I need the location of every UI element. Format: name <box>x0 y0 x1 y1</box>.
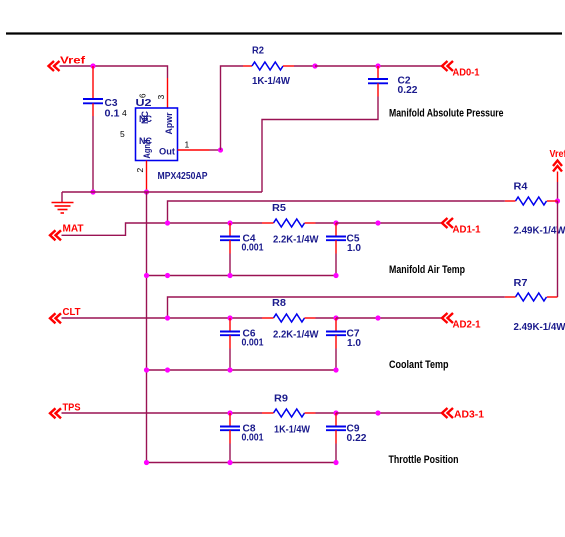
port AD1-1 <box>442 218 453 228</box>
svg-text:R8: R8 <box>272 298 286 309</box>
port TPS <box>50 408 61 418</box>
ground <box>52 203 74 214</box>
wire R8 right lead to C7 node <box>305 317 337 319</box>
wire MAT ground bus <box>147 275 337 277</box>
svg-text:3: 3 <box>156 95 166 100</box>
junction C7 / CLT bus <box>333 367 338 372</box>
junction C5 / MAT bus <box>333 273 338 278</box>
junction CLT output artifact <box>375 315 380 320</box>
svg-text:R5: R5 <box>272 203 286 214</box>
svg-text:CLT: CLT <box>63 306 82 318</box>
resistor R9 <box>274 409 305 417</box>
junction trunk / TPS bus corner <box>144 460 149 465</box>
resistor R7 <box>516 293 547 301</box>
wire C4 lower lead to MAT ground bus <box>229 240 231 275</box>
svg-text:R9: R9 <box>274 394 288 405</box>
svg-text:1K-1/4W: 1K-1/4W <box>252 76 291 87</box>
junction Vref pull-up / CLT line <box>165 315 170 320</box>
wire R4 rail to MAT line <box>168 201 516 223</box>
wire C6 lower lead to CLT ground bus <box>229 335 231 370</box>
svg-text:Throttle Position: Throttle Position <box>389 454 459 466</box>
wire C4 upper lead <box>229 223 231 237</box>
wire C7 upper lead <box>335 318 337 332</box>
wire U2 pin 1 Out lead <box>178 149 221 151</box>
wire C8 lower lead to TPS ground bus <box>229 430 231 462</box>
wire R5 right lead to C5 node <box>305 222 337 224</box>
svg-text:Manifold Absolute Pressure: Manifold Absolute Pressure <box>389 108 504 120</box>
junction C7 tap <box>333 315 338 320</box>
svg-text:6: 6 <box>139 93 148 98</box>
wire U2 pin 2 lead <box>146 161 148 191</box>
wire CLT ground bus <box>147 369 337 371</box>
wire R9 left lead <box>262 412 274 414</box>
port AD3-1 <box>442 408 453 418</box>
svg-text:AD1-1: AD1-1 <box>453 225 481 236</box>
capacitor C3 <box>83 99 103 103</box>
svg-text:2: 2 <box>135 168 145 173</box>
svg-text:Manifold Air Temp: Manifold Air Temp <box>389 264 465 276</box>
resistor R8 <box>274 314 305 322</box>
svg-text:0.22: 0.22 <box>398 85 418 96</box>
svg-text:0.001: 0.001 <box>242 433 264 444</box>
svg-text:AD3-1: AD3-1 <box>454 410 484 421</box>
svg-text:0.001: 0.001 <box>242 243 264 254</box>
svg-text:1: 1 <box>185 140 190 150</box>
wire MAT output line <box>336 222 442 224</box>
svg-text:1.0: 1.0 <box>347 243 361 254</box>
port MAT <box>50 230 61 240</box>
port AD2-1 <box>442 313 453 323</box>
capacitor C9 <box>326 427 346 431</box>
U2 pin 4 name NC <box>139 111 152 124</box>
junction Vref pull-up / MAT line <box>165 220 170 225</box>
junction R4/Vref node <box>555 198 560 203</box>
junction C6 tap <box>227 315 232 320</box>
wire R4 right lead <box>547 200 558 202</box>
svg-text:NC: NC <box>140 111 150 124</box>
wire TPS output line <box>336 412 442 414</box>
wire R8 left lead <box>262 317 274 319</box>
svg-text:Vref: Vref <box>550 149 565 160</box>
wire Out node to R2 <box>221 66 253 150</box>
svg-text:AD2-1: AD2-1 <box>453 320 481 331</box>
capacitor C2 <box>368 79 388 83</box>
U2 pin 5 name NC / pin 2 name Agnd <box>139 136 152 159</box>
junction C4 tap <box>227 220 232 225</box>
wire ground rail <box>62 191 262 193</box>
svg-text:R2: R2 <box>252 46 264 57</box>
junction TPS output artifact <box>375 410 380 415</box>
junction C3/ground rail <box>90 189 95 194</box>
junction trunk / CLT bus <box>144 367 149 372</box>
wire C2 upper lead <box>377 66 379 79</box>
wire ground trunk vertical <box>146 192 148 463</box>
wire R7 rail to CLT line <box>168 297 516 318</box>
svg-text:Agnd: Agnd <box>142 140 152 159</box>
junction C9 / TPS bus <box>333 460 338 465</box>
junction C5 tap <box>333 220 338 225</box>
junction trunk / MAT bus <box>144 273 149 278</box>
capacitor C4 <box>220 237 240 241</box>
svg-text:MAT: MAT <box>63 223 85 235</box>
wire CLT port to R8 <box>62 317 263 319</box>
junction CLT bus artifact <box>165 367 170 372</box>
wire R7 right lead <box>547 296 558 298</box>
wire C2 lower lead return to ground rail <box>262 83 378 192</box>
junction MAT output artifact <box>375 220 380 225</box>
svg-text:1K-1/4W: 1K-1/4W <box>274 425 311 436</box>
wire TPS ground bus <box>147 462 337 464</box>
svg-text:C3: C3 <box>105 98 118 109</box>
junction C6 / CLT bus <box>227 367 232 372</box>
svg-text:R4: R4 <box>514 182 528 193</box>
junction MAT bus artifact <box>165 273 170 278</box>
wire C3 lower lead to ground rail <box>92 103 94 192</box>
svg-text:2.2K-1/4W: 2.2K-1/4W <box>273 235 319 246</box>
port Vref (left) <box>49 61 60 71</box>
junction C8 / TPS bus <box>227 460 232 465</box>
svg-text:5: 5 <box>120 129 125 139</box>
junction C4 / MAT bus <box>227 273 232 278</box>
capacitor C5 <box>326 237 346 241</box>
wire MAT port to R5 <box>62 223 263 235</box>
sensor U2 MPX4250AP body <box>136 108 178 161</box>
wire Vref port to U2 pin 3 <box>60 66 168 109</box>
svg-text:2.49K-1/4W: 2.49K-1/4W <box>514 322 565 333</box>
wire Vref arrow to R4 node <box>557 172 559 202</box>
wire C5 lower lead to MAT ground bus <box>335 240 337 275</box>
junction C9 tap <box>333 410 338 415</box>
wire C9 upper lead <box>335 413 337 427</box>
wire R2 to output node <box>283 65 315 67</box>
capacitor C6 <box>220 332 240 336</box>
svg-text:TPS: TPS <box>63 402 81 414</box>
resistor R2 <box>252 62 283 70</box>
wire R5 left lead <box>262 222 274 224</box>
svg-text:0.001: 0.001 <box>242 338 264 349</box>
port CLT <box>50 313 61 323</box>
svg-text:Coolant Temp: Coolant Temp <box>389 359 449 371</box>
svg-text:0.1: 0.1 <box>105 109 120 120</box>
wire C7 lower lead to CLT ground bus <box>335 335 337 370</box>
wire R4-R7 vertical <box>557 201 559 297</box>
capacitor C8 <box>220 427 240 431</box>
capacitor C7 <box>326 332 346 336</box>
svg-text:Out: Out <box>159 147 176 158</box>
junction C2 tap <box>375 63 380 68</box>
svg-text:AD0-1: AD0-1 <box>453 68 480 79</box>
wire C9 lower lead to TPS ground bus <box>335 430 337 462</box>
resistor R4 <box>516 197 547 205</box>
svg-text:Vref: Vref <box>60 55 86 67</box>
wire C8 upper lead <box>229 413 231 427</box>
svg-text:1.0: 1.0 <box>347 338 361 349</box>
svg-text:0.22: 0.22 <box>347 433 367 444</box>
wire TPS port to R9 <box>62 412 263 414</box>
svg-text:R7: R7 <box>514 278 528 289</box>
port AD0-1 <box>442 61 453 71</box>
wire C3 upper lead <box>92 66 94 99</box>
junction Out node <box>218 147 223 152</box>
junction U2 pin 2 / ground rail <box>144 189 149 194</box>
wire R9 right lead to C9 node <box>305 412 337 414</box>
svg-text:MPX4250AP: MPX4250AP <box>158 171 208 182</box>
junction R2 output <box>312 63 317 68</box>
svg-text:4: 4 <box>122 108 127 118</box>
svg-text:2.2K-1/4W: 2.2K-1/4W <box>273 330 319 341</box>
wire CLT output line <box>336 317 442 319</box>
junction Vref/C3 node <box>90 63 95 68</box>
junction C8 tap <box>227 410 232 415</box>
wire C6 upper lead <box>229 318 231 332</box>
wire ground stub <box>61 192 63 203</box>
resistor R5 <box>274 219 305 227</box>
svg-text:Apwr: Apwr <box>164 112 174 134</box>
wire C5 upper lead <box>335 223 337 237</box>
wire MAP output line <box>315 65 442 67</box>
port Vref (top right) <box>553 161 562 172</box>
